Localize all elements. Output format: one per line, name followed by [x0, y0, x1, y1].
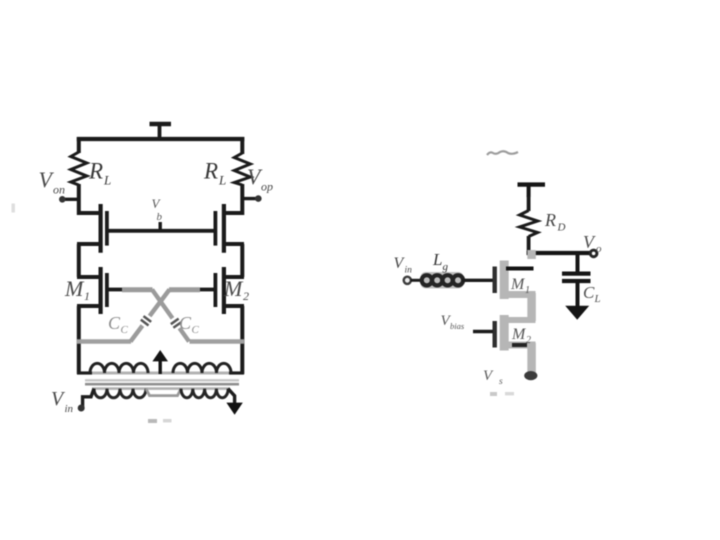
wire M2 gate — [473, 330, 493, 334]
inductor Lg — [421, 272, 464, 289]
capacitor CL — [562, 253, 591, 307]
cascode transistor left (upper) — [77, 204, 107, 253]
transistor M2 right circuit — [495, 315, 536, 351]
wire cross-couple left source tap (grey) — [77, 339, 131, 344]
wire left branch from rail to resistor — [77, 137, 81, 153]
capacitor CC right (on diagonal A) — [169, 316, 184, 331]
svg-text:L: L — [432, 250, 442, 269]
wire M1 gate (grey part) — [122, 287, 153, 292]
svg-text:M: M — [223, 276, 244, 301]
transistor M1 — [77, 267, 107, 314]
svg-text:1: 1 — [84, 289, 90, 303]
transformer core line upper — [85, 379, 239, 381]
terminal dot Von — [59, 196, 66, 203]
center tap arrow — [158, 359, 161, 374]
svg-text:D: D — [557, 222, 566, 234]
svg-text:C: C — [583, 283, 595, 302]
wire rail M2 source to Vs terminal (grey) — [527, 343, 536, 374]
wire M1 gate (black part) — [109, 288, 125, 292]
svg-text:L: L — [103, 173, 111, 188]
wire top supply rail — [77, 137, 245, 141]
svg-text:M: M — [64, 276, 85, 301]
transformer core line lower — [85, 383, 239, 386]
label M1 right circuit — [510, 276, 530, 296]
transformer secondary winding left — [90, 363, 148, 373]
node Von output stub — [63, 198, 80, 201]
transformer secondary winding right — [173, 363, 231, 373]
wire left branch resistor to cascode drain — [77, 184, 81, 215]
svg-text:R: R — [544, 210, 556, 230]
wire cascode gate bias line — [107, 229, 215, 233]
terminal Vin right circuit — [404, 277, 411, 284]
svg-text:L: L — [218, 173, 226, 188]
label RL left — [88, 159, 111, 188]
terminal Vs bottom — [524, 371, 537, 380]
resistor RL right — [234, 153, 250, 185]
svg-text:C: C — [121, 324, 129, 336]
svg-text:b: b — [157, 211, 163, 223]
svg-text:2: 2 — [526, 335, 531, 346]
wire cross-couple right source tap (grey) — [190, 339, 245, 344]
label Vo — [583, 232, 602, 255]
svg-text:C: C — [179, 313, 192, 333]
label M2 right circuit — [511, 326, 531, 346]
label RD — [544, 210, 566, 234]
label Vb — [152, 196, 163, 223]
wire primary left lead — [83, 389, 94, 408]
wire right lower to transformer — [240, 306, 244, 374]
wire rail M1 source to M2 drain (grey) — [527, 293, 536, 321]
svg-text:R: R — [88, 159, 103, 184]
svg-text:o: o — [596, 243, 602, 255]
wire primary right lead — [228, 389, 235, 404]
transformer primary center trough — [146, 389, 181, 396]
label Vop — [247, 164, 273, 194]
label Vs — [483, 368, 503, 387]
label CC left — [108, 313, 129, 336]
svg-text:on: on — [53, 183, 65, 197]
wire cross diagonal A (M1 gate to right tap) — [152, 290, 189, 342]
ground arrow right of transformer — [226, 403, 242, 415]
svg-text:in: in — [65, 403, 74, 415]
wire VDD to resistor — [527, 196, 531, 211]
label CL — [583, 283, 601, 305]
transformer primary baseline (grey) — [92, 387, 230, 390]
label M1 — [64, 276, 90, 303]
svg-text:L: L — [594, 293, 601, 305]
svg-text:s: s — [499, 377, 503, 387]
svg-text:2: 2 — [243, 289, 249, 303]
label CC right — [179, 313, 200, 336]
wire M2 gate (black part) — [198, 288, 214, 292]
wire terminal to inductor — [411, 279, 422, 282]
faint squiggle annotation — [487, 151, 518, 155]
wire output node horizontal — [527, 251, 591, 255]
wire right between cascode and M2 — [240, 244, 244, 277]
wire cross diagonal B (M2 gate to left tap) — [131, 290, 170, 342]
caption (a) faint — [148, 419, 157, 423]
label Vbias — [441, 313, 465, 331]
resistor RL left — [71, 152, 87, 185]
label Vin right circuit — [394, 255, 413, 276]
svg-text:bias: bias — [450, 321, 465, 331]
node bias stub — [158, 222, 161, 231]
wire left between cascode and M1 — [77, 244, 81, 277]
svg-text:op: op — [261, 180, 273, 194]
label Vin left circuit — [51, 388, 74, 415]
svg-text:R: R — [203, 159, 218, 184]
node Vop output stub — [242, 197, 259, 200]
transformer primary winding right — [181, 389, 228, 398]
transformer secondary baseline (grey) — [86, 372, 234, 375]
svg-text:M: M — [510, 276, 526, 293]
label M2 — [223, 276, 249, 303]
svg-text:M: M — [511, 326, 527, 343]
wire inductor to gate M1 — [462, 279, 493, 282]
terminal dot Vin — [78, 405, 85, 412]
transformer secondary right hook — [229, 371, 244, 374]
transistor M1 right circuit — [495, 261, 536, 300]
wire right branch resistor to cascode — [240, 184, 244, 215]
wire rail output to M1 drain (grey) — [527, 250, 536, 259]
transistor M2 — [215, 267, 244, 314]
wire resistor to output node — [527, 236, 531, 255]
svg-text:g: g — [443, 261, 449, 273]
svg-text:C: C — [192, 324, 200, 336]
cascode transistor right (upper) — [215, 204, 244, 253]
label Von — [39, 167, 66, 197]
transformer primary winding left — [94, 389, 146, 398]
terminal Vo — [590, 250, 597, 257]
transformer secondary left hook — [77, 371, 92, 374]
caption (b) faint — [490, 392, 497, 396]
wire M2 gate (grey part) — [169, 287, 200, 292]
wire right branch from rail to resistor — [240, 137, 244, 154]
wire left lower to transformer — [77, 306, 81, 374]
resistor RD — [520, 211, 538, 237]
ground below CL — [565, 306, 589, 320]
svg-text:in: in — [405, 266, 413, 276]
terminal dot Vop — [255, 195, 262, 202]
svg-text:C: C — [108, 313, 121, 333]
label RL right — [203, 159, 226, 188]
power VDD symbol (left circuit) — [150, 124, 172, 140]
power VDD symbol (right circuit) — [518, 185, 546, 197]
capacitor CC left (on diagonal B) — [139, 313, 154, 328]
label Lg — [432, 250, 449, 273]
page artifact dash left edge — [12, 204, 15, 213]
